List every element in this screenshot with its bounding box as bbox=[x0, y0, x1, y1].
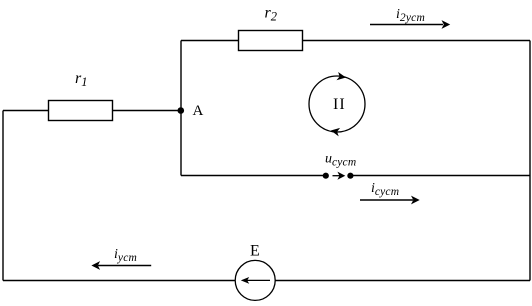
node A bbox=[178, 107, 185, 114]
loop II top arrowhead bbox=[336, 72, 346, 82]
wire vertical through node A bbox=[180, 41, 182, 176]
arrow u between terminals bbox=[333, 172, 346, 180]
switch terminal dot right bbox=[347, 173, 353, 179]
wire top right bbox=[303, 40, 531, 42]
loop II circle bbox=[309, 76, 365, 132]
arrow i_ust bbox=[91, 261, 151, 270]
loop II bottom arrowhead bbox=[330, 126, 340, 136]
arrow i_sust bbox=[360, 196, 420, 205]
svg-text:E: E bbox=[250, 243, 260, 260]
wire right vertical bbox=[529, 41, 531, 281]
wire r1 lead left bbox=[3, 110, 49, 112]
arrow i2ust bbox=[370, 20, 450, 29]
wire r2 lead left bbox=[181, 40, 239, 42]
wire middle right bbox=[350, 175, 530, 177]
switch terminal dot left bbox=[323, 173, 329, 179]
wire left vertical bbox=[2, 111, 4, 281]
svg-text:A: A bbox=[193, 103, 204, 119]
EMF source E arrow bbox=[241, 277, 270, 284]
wire bottom right bbox=[275, 280, 530, 282]
resistor r1 bbox=[49, 101, 113, 121]
wire bottom left bbox=[3, 280, 235, 282]
resistor r2 bbox=[239, 31, 303, 51]
wire r1 lead right bbox=[113, 110, 182, 112]
svg-text:II: II bbox=[333, 96, 346, 113]
EMF source E circle bbox=[235, 260, 275, 300]
wire middle left bbox=[181, 175, 326, 177]
